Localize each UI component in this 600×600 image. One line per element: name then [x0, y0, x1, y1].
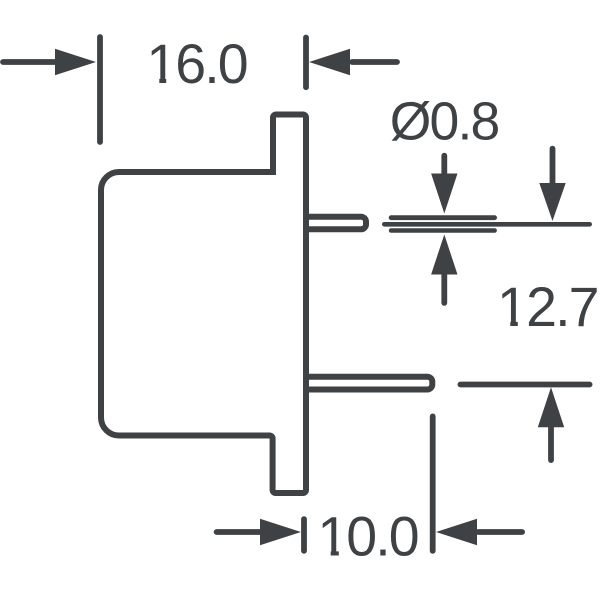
svg-text:Ø0.8: Ø0.8 — [390, 93, 501, 152]
svg-text:12.7: 12.7 — [497, 276, 600, 338]
svg-text:10.0: 10.0 — [317, 505, 419, 567]
svg-text:16.0: 16.0 — [146, 33, 248, 95]
